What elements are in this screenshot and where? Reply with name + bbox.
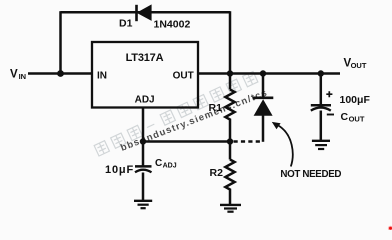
svg-text:V: V: [10, 69, 18, 81]
svg-text:10μF: 10μF: [105, 164, 134, 176]
svg-text:C: C: [341, 111, 349, 123]
svg-text:R2: R2: [210, 167, 224, 179]
svg-text:ADJ: ADJ: [163, 163, 177, 170]
svg-text:LT317A: LT317A: [126, 52, 164, 64]
svg-text:ADJ: ADJ: [135, 95, 155, 106]
svg-text:NOT NEEDED: NOT NEEDED: [280, 169, 341, 180]
svg-text:IN: IN: [97, 71, 107, 82]
svg-text:IN: IN: [19, 72, 27, 81]
svg-text:C: C: [155, 158, 162, 169]
svg-text:R1: R1: [209, 102, 223, 114]
svg-text:OUT: OUT: [173, 71, 194, 82]
svg-text:OUT: OUT: [349, 115, 365, 124]
svg-text:1N4002: 1N4002: [154, 19, 191, 31]
svg-text:100μF: 100μF: [340, 94, 371, 106]
svg-text:OUT: OUT: [351, 61, 367, 70]
svg-text:D1: D1: [119, 18, 133, 30]
